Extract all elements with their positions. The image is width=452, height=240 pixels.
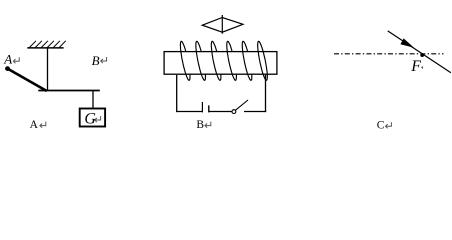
figure A: return mark after A bbox=[13, 57, 19, 63]
figure A: wire to weight G bbox=[92, 91, 94, 109]
svg-text:C: C bbox=[377, 120, 385, 132]
figure B: battery long plate bbox=[201, 102, 203, 112]
figure B: compass needle diamond bbox=[202, 18, 243, 33]
svg-text:A: A bbox=[3, 52, 12, 67]
figure B: wire switch to right bbox=[244, 111, 266, 113]
figure B: bottom wire left segment bbox=[176, 111, 202, 113]
figure A: return mark after caption A bbox=[40, 122, 46, 128]
figure B: right lead wire bbox=[265, 75, 267, 112]
figure B: left lead wire bbox=[176, 75, 178, 112]
figure A: ceiling hatch marks bbox=[29, 41, 65, 48]
figure B: switch lever bbox=[236, 100, 249, 110]
svg-text:F: F bbox=[410, 58, 421, 75]
figure A: lever bar bbox=[38, 90, 100, 92]
figure A: ceiling line bbox=[27, 47, 63, 49]
figure B: coil turn 4 bbox=[227, 41, 237, 80]
figure C: dash-dot axis line bbox=[334, 53, 444, 55]
figure C: small mark after F bbox=[421, 66, 423, 69]
svg-text:G: G bbox=[84, 111, 96, 128]
figure B: compass pivot line bbox=[221, 15, 223, 34]
figure A: weight box G bbox=[80, 109, 105, 127]
figure B: coil turn 1 bbox=[180, 41, 190, 80]
figure B: return mark after caption B bbox=[205, 122, 211, 128]
svg-text:B: B bbox=[92, 53, 100, 68]
figure B: solenoid core rectangle bbox=[164, 52, 277, 75]
figure C: arrowhead bbox=[400, 38, 414, 47]
svg-text:A: A bbox=[30, 119, 39, 131]
figure A: vertical support rope bbox=[47, 48, 49, 91]
figure A: diagonal rope from A bbox=[8, 69, 47, 91]
figure B: coil turn 6 bbox=[258, 41, 268, 80]
figure B: switch hinge circle bbox=[232, 110, 236, 114]
figure B: battery short plate bbox=[208, 105, 210, 112]
figure A: return mark after B bbox=[101, 57, 107, 63]
figure B: coil turn 2 bbox=[196, 41, 206, 80]
figure B: wire battery to switch bbox=[209, 111, 232, 113]
figure B: coil turn 3 bbox=[211, 41, 221, 80]
figure C: return mark after caption C bbox=[386, 122, 392, 128]
figure A: pivot dot A bbox=[5, 66, 10, 71]
figure B: coil turn 5 bbox=[242, 41, 252, 80]
svg-text:B: B bbox=[196, 119, 204, 131]
figure C: point dot bbox=[420, 53, 424, 57]
figure C: force line diagonal bbox=[388, 31, 451, 73]
figure A: return mark after G bbox=[95, 116, 101, 122]
